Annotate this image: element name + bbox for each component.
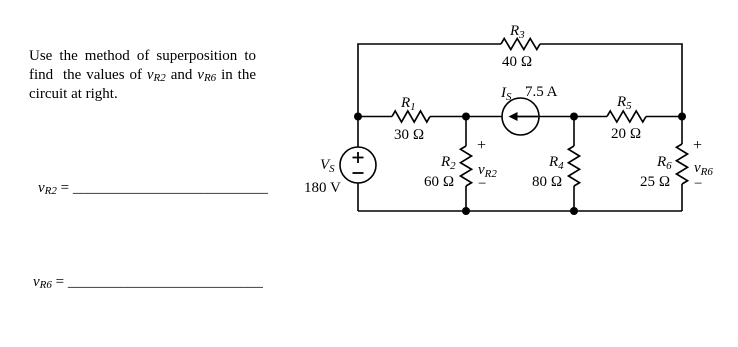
label R5	[616, 94, 632, 112]
wire R1 to current source	[430, 116, 502, 118]
label 80 ohm	[532, 174, 562, 190]
svg-text:20 Ω: 20 Ω	[611, 126, 641, 142]
svg-text:30 Ω: 30 Ω	[394, 127, 424, 143]
answer blank vR6	[33, 274, 263, 291]
label minus vR6	[694, 176, 702, 192]
svg-text:180 V: 180 V	[304, 180, 341, 196]
answer blank vR2	[38, 180, 268, 197]
svg-text:R6: R6	[656, 154, 672, 172]
svg-text:+: +	[477, 137, 486, 154]
wire R4 bottom lead	[573, 186, 575, 211]
problem statement text	[29, 47, 256, 104]
svg-text:−: −	[694, 176, 702, 192]
svg-text:60 Ω: 60 Ω	[424, 174, 454, 190]
label minus vR2	[478, 176, 486, 192]
label R1	[400, 95, 416, 113]
svg-text:IS: IS	[500, 85, 512, 103]
label 7.5 A	[525, 84, 558, 100]
wire R6 bottom lead	[681, 184, 683, 211]
node F (R4 bottom)	[570, 207, 578, 215]
label plus vR6	[693, 137, 702, 154]
svg-text:R3: R3	[509, 23, 525, 41]
svg-text:25 Ω: 25 Ω	[640, 174, 670, 190]
label 60 ohm	[424, 174, 454, 190]
svg-text:R4: R4	[548, 154, 564, 172]
label R6	[656, 154, 672, 172]
label VS	[320, 157, 335, 175]
wire R6 top lead	[681, 117, 683, 145]
label 20 ohm	[611, 126, 641, 142]
wire R2 bottom lead	[465, 186, 467, 211]
svg-text:+: +	[693, 137, 702, 154]
svg-text:−: −	[478, 176, 486, 192]
resistor R5	[607, 111, 646, 122]
resistor R3	[501, 39, 540, 50]
wire R4 top lead	[573, 117, 575, 147]
voltage source minus sign	[353, 172, 364, 174]
resistor R6	[677, 144, 688, 184]
label R4	[548, 154, 564, 172]
wire middle left	[358, 116, 392, 118]
svg-text:7.5 A: 7.5 A	[525, 84, 558, 100]
node E (R2 bottom)	[462, 207, 470, 215]
current source arrow	[509, 112, 539, 121]
label 40 ohm	[502, 54, 532, 70]
wire top-right rail	[540, 44, 682, 117]
label 30 ohm	[394, 127, 424, 143]
node A (left mid)	[354, 113, 362, 121]
label vR2	[478, 162, 497, 180]
resistor R4	[569, 146, 580, 186]
svg-text:VS: VS	[320, 157, 335, 175]
voltage source VS circle	[340, 147, 376, 183]
wire R2 top lead	[465, 117, 467, 147]
wire left rail bottom	[357, 183, 359, 211]
node C (R4 top)	[570, 113, 578, 121]
current source IS circle	[502, 98, 539, 135]
wire top-left rail	[358, 44, 501, 147]
resistor R1	[392, 111, 430, 122]
label R3	[509, 23, 525, 41]
svg-text:40 Ω: 40 Ω	[502, 54, 532, 70]
wire current source to node	[539, 116, 607, 118]
voltage source plus sign	[353, 152, 364, 163]
svg-text:R1: R1	[400, 95, 416, 113]
node D (right mid)	[678, 113, 686, 121]
label plus vR2	[477, 137, 486, 154]
svg-text:R5: R5	[616, 94, 632, 112]
label 25 ohm	[640, 174, 670, 190]
node B (R2 top)	[462, 113, 470, 121]
svg-text:R2: R2	[440, 154, 456, 172]
svg-text:80 Ω: 80 Ω	[532, 174, 562, 190]
label IS	[500, 85, 512, 103]
wire bottom rail	[358, 210, 682, 212]
label R2	[440, 154, 456, 172]
label vR6	[694, 160, 713, 178]
wire R5 to right rail	[646, 116, 682, 118]
label 180 V	[304, 180, 341, 196]
resistor R2	[461, 146, 472, 186]
